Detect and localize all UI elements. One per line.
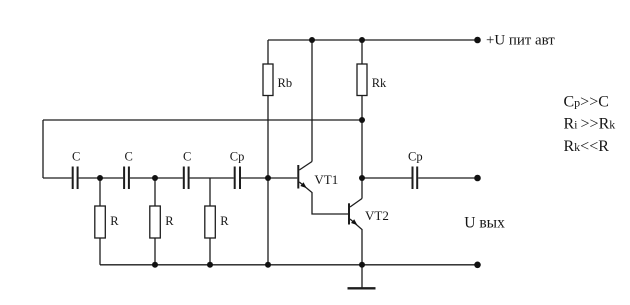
svg-text:R: R [165,214,174,228]
svg-text:Cp>>C: Cp>>C [564,94,609,111]
svg-text:C: C [125,150,133,164]
svg-text:U вых: U вых [464,215,505,232]
svg-text:R: R [110,214,119,228]
svg-text:VT2: VT2 [365,208,389,223]
svg-text:C: C [72,150,80,164]
svg-text:VT1: VT1 [314,172,338,187]
svg-text:Cp: Cp [230,150,245,164]
svg-text:C: C [183,150,191,164]
svg-text:Rb: Rb [278,76,293,90]
svg-text:Ri >>Rk: Ri >>Rk [564,116,616,133]
svg-text:Rk: Rk [372,76,387,90]
svg-text:+U пит авт: +U пит авт [486,33,555,49]
svg-text:Rk<<R: Rk<<R [564,138,610,155]
svg-text:Cp: Cp [408,150,423,164]
svg-text:R: R [220,214,229,228]
